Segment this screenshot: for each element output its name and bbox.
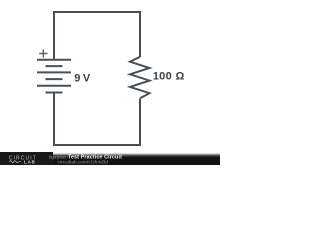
resistor R1 zigzag	[130, 57, 150, 99]
battery V1 plates	[37, 60, 71, 93]
svg-text:100 Ω: 100 Ω	[153, 71, 185, 83]
footer logo zigzag	[9, 161, 21, 163]
svg-text:9 V: 9 V	[74, 73, 91, 85]
svg-text:circuitlab.com/c/2h4d3d: circuitlab.com/c/2h4d3d	[58, 159, 109, 164]
battery positive terminal marker +	[39, 49, 47, 57]
wire: battery top lead, top wire, resistor top lead	[54, 12, 140, 60]
footer logo block background	[0, 152, 53, 165]
svg-text:LAB: LAB	[24, 159, 36, 164]
wire: battery bottom lead, bottom wire, resistor bottom lead	[54, 93, 140, 146]
